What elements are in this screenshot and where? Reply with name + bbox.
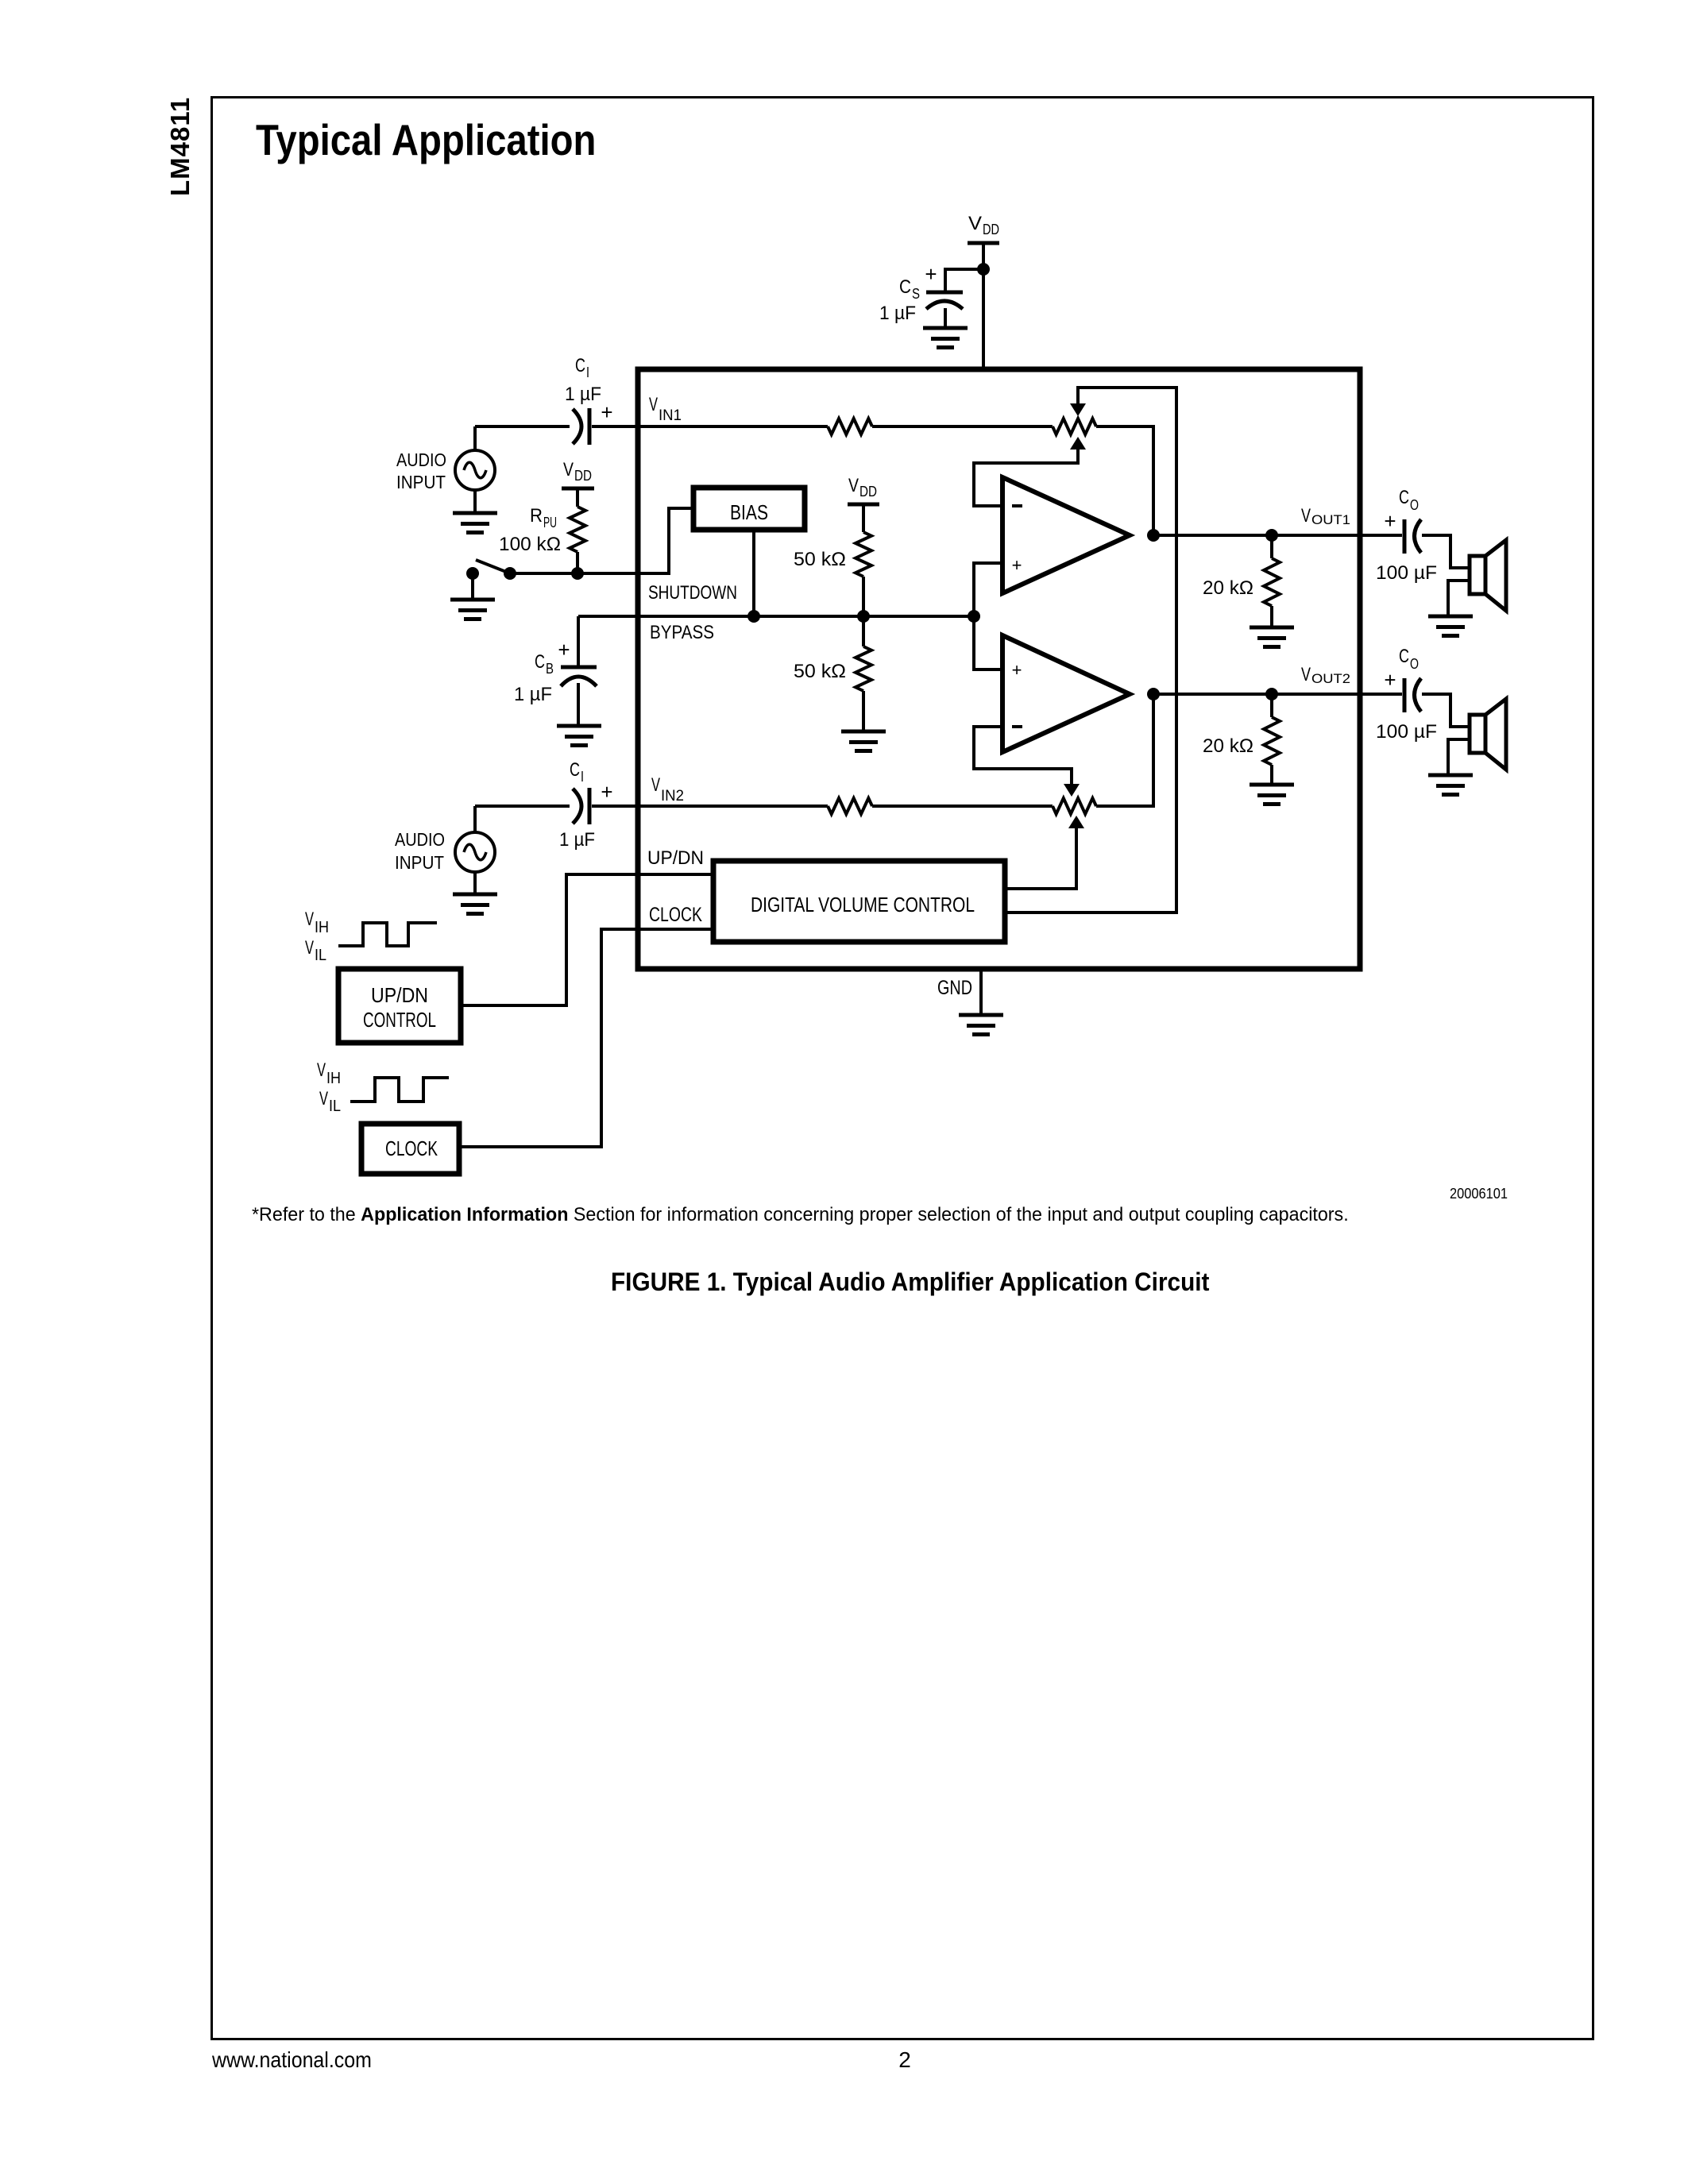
svg-text:DD: DD <box>983 222 999 237</box>
svg-text:1 µF: 1 µF <box>514 684 552 705</box>
svg-text:+: + <box>601 400 612 424</box>
svg-text:V: V <box>1301 505 1311 527</box>
svg-text:B: B <box>546 661 554 677</box>
svg-text:SHUTDOWN: SHUTDOWN <box>648 582 737 604</box>
svg-text:GND: GND <box>937 977 972 999</box>
svg-text:+: + <box>601 780 612 804</box>
svg-text:C: C <box>570 759 580 781</box>
svg-text:UP/DN: UP/DN <box>647 847 704 869</box>
svg-text:50 kΩ: 50 kΩ <box>794 549 846 570</box>
svg-text:1 µF: 1 µF <box>565 384 601 405</box>
svg-text:C: C <box>575 355 585 376</box>
svg-text:OUT1: OUT1 <box>1311 512 1350 527</box>
svg-text:20 kΩ: 20 kΩ <box>1203 735 1253 757</box>
svg-text:50 kΩ: 50 kΩ <box>794 661 846 682</box>
svg-text:DD: DD <box>859 484 877 500</box>
svg-text:IL: IL <box>329 1098 341 1115</box>
svg-text:V: V <box>968 213 982 234</box>
svg-text:V: V <box>649 394 658 415</box>
svg-text:C: C <box>899 276 911 298</box>
svg-text:+: + <box>925 262 937 286</box>
svg-text:C: C <box>1399 646 1409 667</box>
svg-text:DIGITAL VOLUME CONTROL: DIGITAL VOLUME CONTROL <box>751 893 975 916</box>
svg-text:+: + <box>558 638 570 662</box>
svg-text:UP/DN: UP/DN <box>371 983 428 1007</box>
svg-text:+: + <box>1012 555 1022 575</box>
svg-text:DD: DD <box>574 468 592 484</box>
svg-text:IN2: IN2 <box>661 788 684 805</box>
svg-text:+: + <box>1012 660 1022 680</box>
svg-text:CLOCK: CLOCK <box>385 1136 438 1160</box>
svg-text:C: C <box>535 651 545 673</box>
svg-text:V: V <box>305 909 314 930</box>
svg-text:AUDIO: AUDIO <box>395 829 445 850</box>
svg-text:BIAS: BIAS <box>730 500 768 524</box>
svg-text:R: R <box>530 505 543 527</box>
svg-text:OUT2: OUT2 <box>1311 671 1350 686</box>
svg-text:CONTROL: CONTROL <box>363 1008 436 1032</box>
svg-text:100 µF: 100 µF <box>1376 721 1437 743</box>
svg-text:20 kΩ: 20 kΩ <box>1203 577 1253 599</box>
svg-text:V: V <box>848 475 859 496</box>
svg-text:100 kΩ: 100 kΩ <box>499 534 561 555</box>
svg-text:+: + <box>1384 509 1396 533</box>
svg-text:V: V <box>563 459 574 480</box>
svg-text:1 µF: 1 µF <box>559 829 595 851</box>
svg-text:+: + <box>1384 668 1396 692</box>
svg-text:IN1: IN1 <box>659 407 682 424</box>
svg-text:INPUT: INPUT <box>395 852 444 873</box>
svg-text:1 µF: 1 µF <box>879 303 916 324</box>
svg-text:IH: IH <box>315 919 329 936</box>
svg-text:INPUT: INPUT <box>396 472 446 492</box>
svg-text:IH: IH <box>326 1070 341 1087</box>
svg-text:S: S <box>912 286 920 302</box>
svg-text:BYPASS: BYPASS <box>650 622 714 643</box>
svg-text:100 µF: 100 µF <box>1376 562 1437 584</box>
svg-text:V: V <box>319 1088 328 1109</box>
svg-text:I: I <box>586 365 589 380</box>
svg-text:IL: IL <box>315 947 326 964</box>
svg-text:AUDIO: AUDIO <box>396 450 446 470</box>
svg-text:V: V <box>651 774 660 796</box>
svg-text:O: O <box>1410 656 1419 672</box>
svg-text:PU: PU <box>543 515 557 531</box>
svg-text:I: I <box>581 769 584 785</box>
svg-text:V: V <box>317 1059 326 1081</box>
svg-text:V: V <box>1301 664 1311 685</box>
svg-text:CLOCK: CLOCK <box>649 904 702 926</box>
svg-text:20006101: 20006101 <box>1450 1186 1508 1202</box>
svg-text:C: C <box>1399 487 1409 508</box>
svg-text:O: O <box>1410 497 1419 513</box>
svg-text:V: V <box>305 937 314 959</box>
